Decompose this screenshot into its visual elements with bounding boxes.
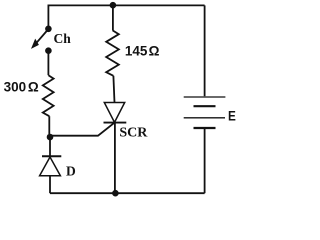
svg-text:Ω: Ω	[28, 79, 39, 94]
svg-text:D: D	[66, 164, 76, 179]
svg-text:E: E	[228, 107, 236, 123]
svg-text:Ch: Ch	[54, 31, 72, 46]
svg-text:SCR: SCR	[119, 126, 148, 141]
svg-text:300: 300	[4, 79, 27, 94]
svg-text:145: 145	[125, 44, 148, 59]
svg-text:Ω: Ω	[149, 44, 160, 59]
